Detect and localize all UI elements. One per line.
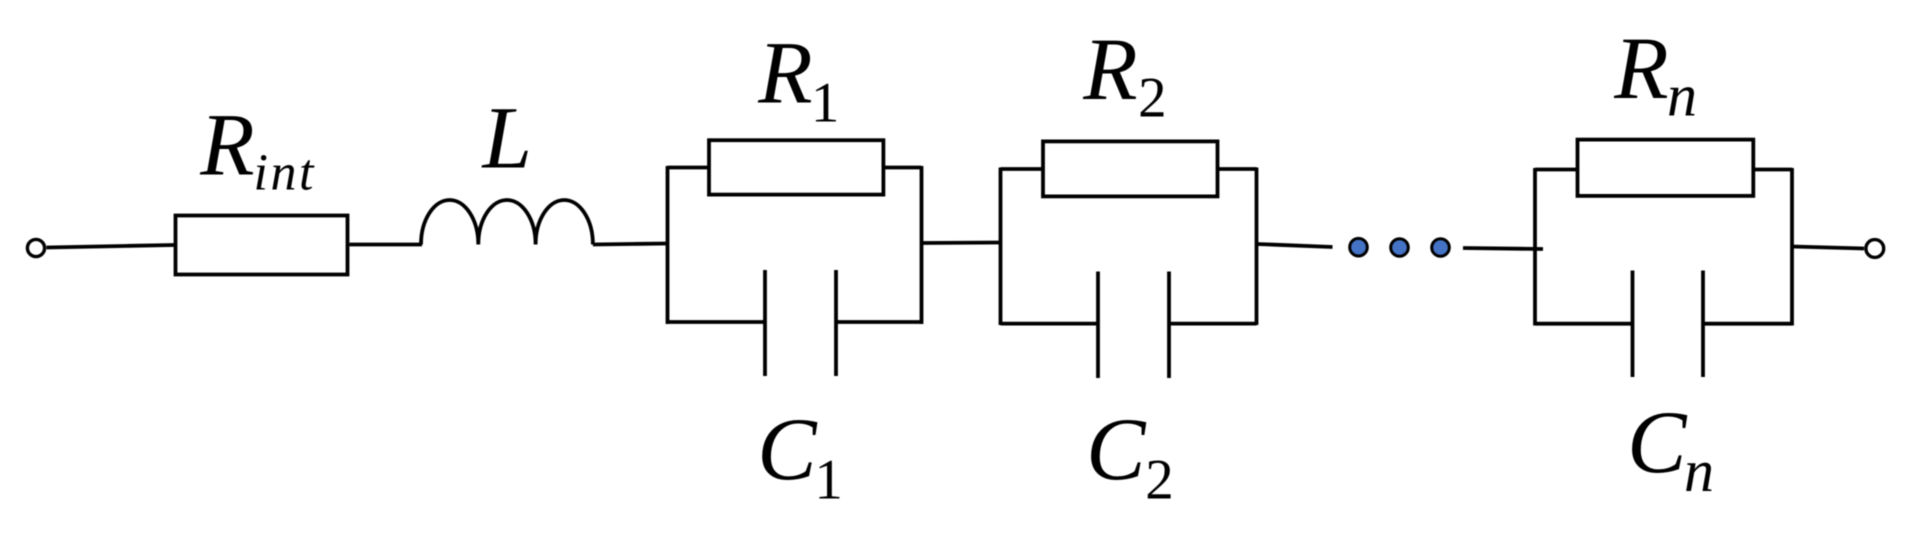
wire RC1 bottom-right [836, 320, 922, 324]
node RC2 right vertical [1255, 168, 1259, 326]
capacitor C1 right plate [834, 270, 838, 376]
svg-text:R: R [1082, 21, 1137, 119]
svg-text:R: R [757, 24, 812, 122]
wire RC1 top-left [668, 166, 710, 170]
wire left terminal to Rint [47, 245, 175, 248]
resistor R1 [709, 140, 883, 194]
node RC1 left vertical [666, 166, 670, 324]
wire RC1 bottom-left [668, 320, 766, 324]
inductor L [421, 200, 593, 245]
wire RC2 to dots [1257, 244, 1333, 247]
svg-text:1: 1 [811, 72, 840, 135]
svg-text:n: n [1684, 438, 1714, 504]
svg-text:2: 2 [1138, 67, 1167, 130]
svg-text:L: L [481, 90, 533, 188]
wire RC1 top-right [883, 166, 921, 170]
ellipsis dot 2 [1391, 239, 1409, 257]
wire RC2 top-left [1001, 167, 1044, 171]
svg-text:n: n [1667, 63, 1697, 129]
wire RC1 to RC2 [922, 241, 1001, 245]
node RCn right vertical [1790, 168, 1794, 326]
wire RC2 bottom-left [1001, 322, 1099, 326]
wire RCn bottom-right [1703, 322, 1792, 326]
svg-text:R: R [1613, 20, 1668, 118]
wire L to RC1 [593, 244, 668, 245]
svg-text:int: int [254, 145, 316, 202]
capacitor Cn left plate [1631, 271, 1635, 378]
wire RCn to right terminal [1792, 247, 1864, 249]
resistor Rn [1578, 140, 1754, 196]
node RC1 right vertical [920, 166, 924, 324]
resistor R2 [1043, 141, 1218, 196]
svg-text:1: 1 [814, 449, 843, 512]
svg-text:C: C [1086, 401, 1147, 499]
node RC2 left vertical [999, 168, 1003, 326]
right terminal [1866, 240, 1884, 258]
capacitor C2 right plate [1167, 272, 1171, 379]
svg-text:C: C [757, 401, 818, 499]
node RCn left vertical [1533, 168, 1537, 326]
resistor Rint [176, 216, 348, 275]
svg-text:2: 2 [1145, 449, 1174, 512]
wire RCn top-right [1753, 168, 1792, 172]
wire RC2 bottom-right [1169, 322, 1257, 326]
wire RC2 top-right [1218, 167, 1257, 171]
wire Rint to L [350, 243, 423, 247]
wire RCn top-left [1535, 168, 1578, 172]
ellipsis dot 1 [1350, 238, 1368, 256]
wire RCn bottom-left [1535, 322, 1633, 326]
capacitor C1 left plate [763, 270, 767, 376]
svg-text:R: R [199, 96, 254, 194]
svg-text:C: C [1627, 394, 1688, 492]
ellipsis dot 3 [1432, 239, 1450, 257]
capacitor Cn right plate [1701, 271, 1705, 378]
wire dots to RCn [1463, 248, 1543, 249]
left terminal [27, 239, 44, 256]
capacitor C2 left plate [1096, 272, 1100, 379]
